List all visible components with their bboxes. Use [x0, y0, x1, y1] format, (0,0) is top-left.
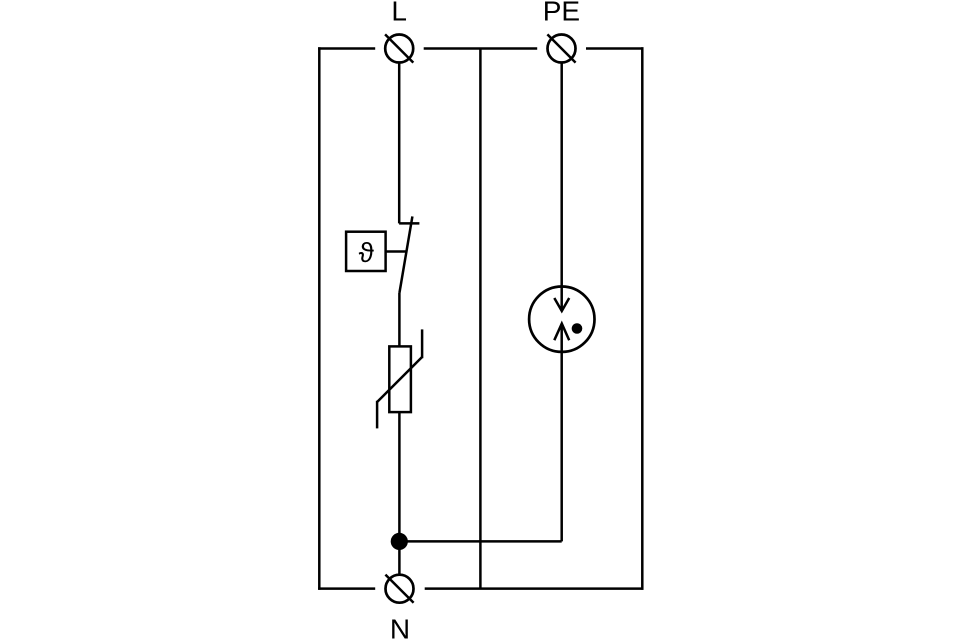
- middle line N-path: [479, 49, 482, 589]
- spark gap lower electrode shaft: [560, 324, 563, 542]
- switch blade (thermal disconnector): [400, 216, 413, 292]
- thermal link to blade: [386, 250, 407, 253]
- wire L terminal to disconnector: [398, 63, 401, 224]
- wire junction to spark gap branch: [399, 540, 561, 543]
- svg-text:PE: PE: [543, 0, 580, 27]
- varistor diagonal: [377, 357, 422, 402]
- wire varistor to junction: [398, 412, 401, 541]
- thermal element box: [346, 232, 386, 271]
- enclosure box top edge left segment: [318, 47, 375, 50]
- svg-text:N: N: [390, 614, 410, 640]
- svg-text:L: L: [391, 0, 407, 27]
- varistor upper tail: [421, 329, 424, 358]
- enclosure box top edge middle segment: [424, 47, 538, 50]
- wire junction to N terminal: [398, 541, 401, 575]
- svg-text:ϑ: ϑ: [359, 237, 375, 268]
- terminal L: [385, 34, 413, 62]
- enclosure box right edge: [641, 47, 644, 590]
- terminal PE: [547, 34, 575, 62]
- spark gap lower arrowhead: [554, 324, 569, 341]
- junction node: [391, 533, 408, 550]
- wire PE terminal to spark gap: [560, 63, 563, 312]
- spark gap indicator dot: [572, 323, 583, 334]
- switch fixed contact tick: [399, 222, 419, 225]
- varistor MOV body: [389, 346, 411, 412]
- spark gap upper arrowhead: [554, 298, 569, 311]
- varistor lower tail: [376, 401, 379, 429]
- spark gap circle: [529, 287, 594, 352]
- enclosure box left edge: [318, 47, 321, 590]
- enclosure box bottom edge right segment: [425, 587, 644, 590]
- enclosure box top edge right segment: [586, 47, 644, 50]
- wire blade to varistor: [398, 293, 401, 347]
- terminal N: [385, 575, 413, 603]
- enclosure box bottom edge left segment: [318, 587, 375, 590]
